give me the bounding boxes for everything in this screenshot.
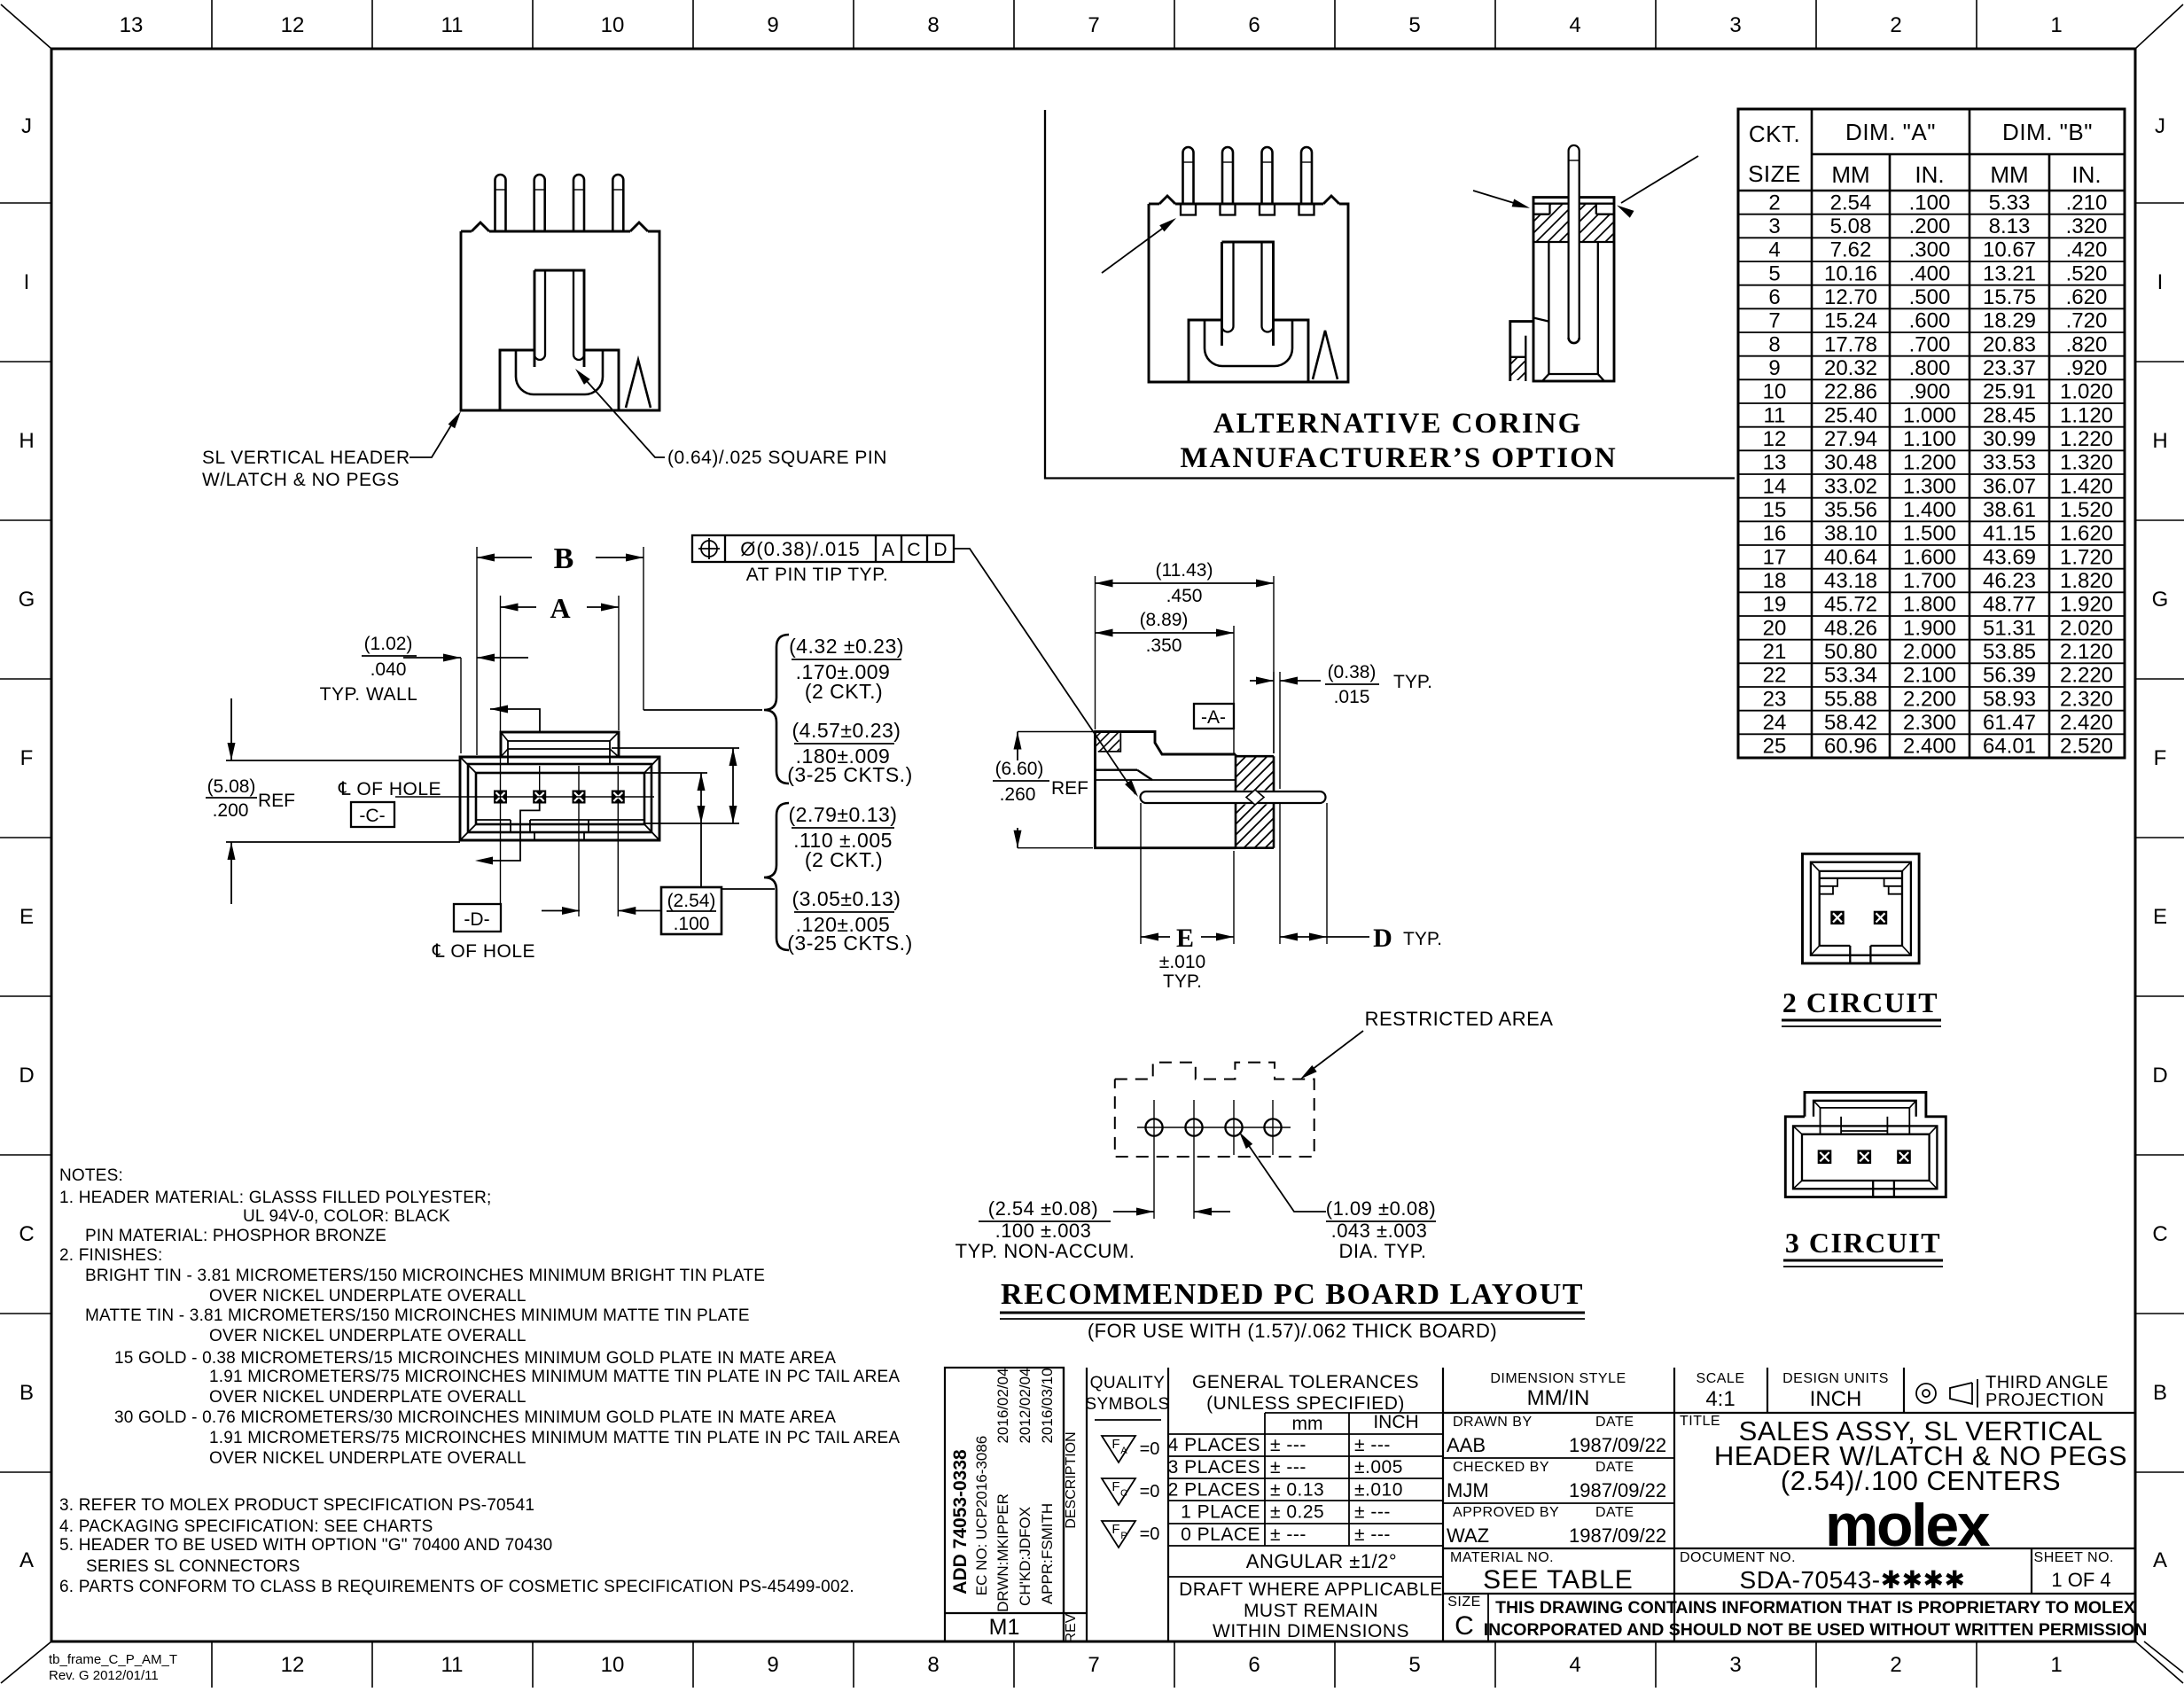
svg-text:-C-: -C-: [359, 806, 385, 826]
side view pin: [1141, 791, 1326, 803]
svg-text:2.300: 2.300: [1903, 711, 1956, 735]
svg-text:5. HEADER TO BE USED WITH OPTI: 5. HEADER TO BE USED WITH OPTION "G" 704…: [59, 1536, 552, 1555]
svg-text:DESIGN UNITS: DESIGN UNITS: [1782, 1371, 1889, 1386]
svg-text:.620: .620: [2066, 285, 2108, 309]
svg-text:SERIES SL CONNECTORS: SERIES SL CONNECTORS: [86, 1557, 300, 1576]
top view bottom shelf: [476, 819, 511, 821]
svg-text:SIZE: SIZE: [1748, 160, 1801, 187]
third angle projection: [1916, 1384, 1936, 1403]
svg-text:=0: =0: [1140, 1524, 1160, 1544]
svg-text:60.96: 60.96: [1824, 735, 1877, 759]
svg-text:UL 94V-0, COLOR: BLACK: UL 94V-0, COLOR: BLACK: [243, 1207, 450, 1226]
svg-text:APPROVED BY: APPROVED BY: [1453, 1505, 1559, 1520]
svg-text:ADD 74053-0338: ADD 74053-0338: [950, 1449, 971, 1595]
svg-text:(2.54 ±0.08): (2.54 ±0.08): [988, 1197, 1098, 1220]
svg-text:(2 CKT.): (2 CKT.): [805, 848, 883, 871]
svg-text:IN.: IN.: [1915, 161, 1944, 188]
svg-text:2.320: 2.320: [2060, 687, 2113, 711]
svg-text:9: 9: [767, 13, 778, 37]
coring front view body: [1149, 203, 1159, 206]
svg-text:10: 10: [601, 13, 625, 37]
svg-text:2.200: 2.200: [1903, 687, 1956, 711]
svg-text:6. PARTS CONFORM TO CLASS B RE: 6. PARTS CONFORM TO CLASS B REQUIREMENTS…: [59, 1578, 854, 1596]
coring latch slot: [1222, 242, 1274, 346]
leader 3-25ckts brace: [643, 709, 762, 711]
svg-text:.920: .920: [2066, 356, 2108, 380]
svg-text:C: C: [2152, 1222, 2167, 1246]
svg-text:38.61: 38.61: [1983, 498, 2036, 522]
coring hatch upper block: [1548, 204, 1550, 214]
side view inner lines: [1096, 779, 1236, 781]
pcb holes: [1145, 1119, 1162, 1135]
svg-text:(0.38): (0.38): [1328, 662, 1377, 682]
svg-text:45.72: 45.72: [1824, 593, 1877, 617]
svg-text:30.99: 30.99: [1983, 427, 2036, 451]
svg-text:SEE TABLE: SEE TABLE: [1483, 1565, 1634, 1595]
svg-text:(UNLESS SPECIFIED): (UNLESS SPECIFIED): [1206, 1393, 1405, 1414]
dimension wall 1.02: [460, 658, 462, 753]
svg-text:± ---: ± ---: [1270, 1435, 1306, 1455]
svg-text:DIM. "A": DIM. "A": [1845, 119, 1936, 145]
svg-text:INCH: INCH: [1373, 1412, 1418, 1432]
arrow left to coring side: [1473, 191, 1525, 207]
dimension 2.79 lines: [644, 772, 707, 774]
svg-text:PIN MATERIAL: PHOSPHOR BRONZE: PIN MATERIAL: PHOSPHOR BRONZE: [85, 1227, 386, 1245]
pin squares top view: [495, 791, 506, 803]
svg-text:11: 11: [1764, 403, 1786, 427]
quality symbols box: [1167, 1368, 1169, 1641]
svg-text:13.21: 13.21: [1983, 261, 2036, 285]
coring pins: [1183, 147, 1194, 204]
side view latch hatch: [1098, 733, 1121, 752]
svg-text:7.62: 7.62: [1830, 238, 1872, 262]
svg-text:-A-: -A-: [1201, 707, 1226, 728]
side view latch arm line: [1096, 769, 1138, 771]
pins inside slot: [544, 270, 546, 355]
svg-text:.300: .300: [1909, 238, 1951, 262]
header front view body: [461, 230, 472, 233]
svg-text:DIA. TYP.: DIA. TYP.: [1338, 1240, 1426, 1262]
svg-text:MM: MM: [1990, 161, 2028, 188]
svg-text:.450: .450: [1166, 586, 1203, 606]
svg-text:2.54: 2.54: [1830, 191, 1872, 214]
svg-text:OVER NICKEL UNDERPLATE OVERALL: OVER NICKEL UNDERPLATE OVERALL: [209, 1388, 526, 1407]
svg-text:25.40: 25.40: [1824, 403, 1877, 427]
svg-text:INCH: INCH: [1810, 1387, 1862, 1411]
leader to header body: [409, 417, 456, 457]
svg-text:F: F: [2154, 746, 2167, 770]
coring side cavity walls: [1548, 242, 1549, 374]
svg-text:TITLE: TITLE: [1680, 1414, 1720, 1429]
polarization triangle: [626, 360, 651, 408]
3 circuit latch notches: [1820, 1108, 1821, 1134]
svg-text:48.77: 48.77: [1983, 593, 2036, 617]
svg-text:(6.60): (6.60): [995, 759, 1044, 779]
position symbol: [701, 541, 717, 557]
svg-text:1 OF 4: 1 OF 4: [2051, 1569, 2110, 1591]
svg-text:TYP. NON-ACCUM.: TYP. NON-ACCUM.: [955, 1240, 1135, 1262]
svg-text:14: 14: [1763, 474, 1787, 498]
svg-text:0 PLACE: 0 PLACE: [1181, 1524, 1260, 1545]
2 circuit corner bevels: [1811, 862, 1820, 871]
top view bottom notches: [534, 832, 535, 840]
2 circuit inner walls: [1819, 871, 1821, 946]
svg-text:SYMBOLS: SYMBOLS: [1085, 1395, 1169, 1414]
corner diagonal bottom-right: [2135, 1641, 2183, 1683]
general tolerances box: [1442, 1368, 1444, 1641]
svg-text:1.020: 1.020: [2060, 380, 2113, 404]
svg-text:C: C: [1120, 1488, 1127, 1499]
svg-text:WAZ: WAZ: [1447, 1524, 1489, 1547]
svg-text:33.02: 33.02: [1824, 474, 1877, 498]
svg-text:12: 12: [1763, 427, 1787, 451]
svg-text:2. FINISHES:: 2. FINISHES:: [59, 1246, 162, 1265]
header pins top: [495, 175, 506, 231]
svg-text:4 PLACES: 4 PLACES: [1168, 1435, 1260, 1455]
svg-text:15: 15: [1763, 498, 1787, 522]
svg-text:THIS DRAWING CONTAINS INFORMAT: THIS DRAWING CONTAINS INFORMATION THAT I…: [1495, 1598, 2135, 1618]
svg-text:DATE: DATE: [1595, 1505, 1634, 1520]
svg-text:.260: .260: [1000, 784, 1036, 805]
svg-text:.720: .720: [2066, 309, 2108, 333]
dimension 8.89/.350: [1233, 626, 1235, 753]
svg-text:±.010: ±.010: [1354, 1479, 1403, 1500]
svg-text:(11.43): (11.43): [1156, 560, 1213, 581]
svg-text:15.24: 15.24: [1824, 309, 1877, 333]
coring side view body: [1533, 198, 1614, 381]
svg-text:4:1: 4:1: [1705, 1387, 1735, 1411]
svg-text:2016/03/10: 2016/03/10: [1039, 1368, 1056, 1443]
svg-text:.820: .820: [2066, 332, 2108, 356]
svg-text:9: 9: [767, 1653, 778, 1677]
svg-text:3. REFER TO MOLEX PRODUCT SPEC: 3. REFER TO MOLEX PRODUCT SPECIFICATION …: [59, 1496, 534, 1515]
svg-text:22: 22: [1763, 664, 1787, 688]
svg-text:5.08: 5.08: [1830, 214, 1872, 238]
svg-text:46.23: 46.23: [1983, 569, 2036, 593]
svg-text:43.69: 43.69: [1983, 545, 2036, 569]
svg-text:17.78: 17.78: [1824, 332, 1877, 356]
coring side bottom bevels: [1548, 373, 1597, 375]
svg-text:.043 ±.003: .043 ±.003: [1331, 1220, 1428, 1242]
dimension 4.57 lines: [612, 747, 739, 749]
svg-text:11: 11: [441, 13, 464, 37]
coring notches at pin bases: [1181, 204, 1196, 215]
svg-text:.350: .350: [1146, 635, 1182, 656]
svg-text:27.94: 27.94: [1824, 427, 1877, 451]
dimension A: [618, 596, 620, 730]
svg-text:2.000: 2.000: [1903, 640, 1956, 664]
svg-text:.200: .200: [213, 800, 249, 821]
svg-text:CHECKED BY: CHECKED BY: [1453, 1460, 1549, 1475]
alternative coring boundary: [1045, 110, 1735, 479]
svg-text:3 PLACES: 3 PLACES: [1168, 1457, 1260, 1478]
dimension 2.54 pcb: [1113, 1211, 1154, 1212]
svg-text:BRIGHT TIN - 3.81 MICROMETERS/: BRIGHT TIN - 3.81 MICROMETERS/150 MICROI…: [85, 1267, 765, 1285]
svg-text:± ---: ± ---: [1270, 1524, 1306, 1545]
svg-text:SHEET NO.: SHEET NO.: [2034, 1550, 2114, 1565]
svg-text:1.300: 1.300: [1903, 474, 1956, 498]
svg-text:CKT.: CKT.: [1749, 121, 1800, 147]
svg-text:REV: REV: [1064, 1613, 1079, 1642]
svg-text:OVER NICKEL UNDERPLATE OVERALL: OVER NICKEL UNDERPLATE OVERALL: [209, 1327, 526, 1345]
svg-text:DIM. "B": DIM. "B": [2002, 119, 2093, 145]
dimension 1.09 dia: [1242, 1135, 1326, 1212]
svg-text:DRWN:MKIPPER: DRWN:MKIPPER: [994, 1493, 1011, 1612]
svg-text:INCORPORATED AND SHOULD NOT BE: INCORPORATED AND SHOULD NOT BE USED WITH…: [1484, 1620, 2148, 1640]
svg-text:10.16: 10.16: [1824, 261, 1877, 285]
svg-text:TYP. WALL: TYP. WALL: [320, 684, 418, 705]
svg-text:mm: mm: [1292, 1414, 1323, 1434]
svg-text:J: J: [2155, 114, 2165, 138]
leader from control frame to side view pin: [954, 549, 1135, 794]
svg-text:C: C: [1455, 1611, 1474, 1641]
svg-text:58.42: 58.42: [1824, 711, 1877, 735]
document no cell: [2031, 1548, 2032, 1594]
latch protrusion top view: [501, 732, 619, 757]
svg-text:15.75: 15.75: [1983, 285, 2036, 309]
svg-text:58.93: 58.93: [1983, 687, 2036, 711]
svg-text:2.520: 2.520: [2060, 735, 2113, 759]
2 circuit view: [1803, 854, 1920, 963]
svg-text:1.100: 1.100: [1903, 427, 1956, 451]
svg-text:=0: =0: [1140, 1439, 1160, 1459]
svg-text:± ---: ± ---: [1354, 1524, 1391, 1545]
svg-text:18.29: 18.29: [1983, 309, 2036, 333]
svg-text:1.920: 1.920: [2060, 593, 2113, 617]
svg-text:TYP.: TYP.: [1403, 929, 1442, 949]
svg-text:.800: .800: [1909, 356, 1951, 380]
centerline pin1 extended: [500, 596, 502, 904]
hole centerlines: [1137, 1127, 1291, 1128]
svg-text:DIMENSION STYLE: DIMENSION STYLE: [1490, 1371, 1626, 1386]
svg-text:61.47: 61.47: [1983, 711, 2036, 735]
svg-text:AT PIN TIP TYP.: AT PIN TIP TYP.: [746, 565, 888, 585]
upper brace: [764, 635, 789, 784]
svg-text:25: 25: [1763, 735, 1787, 759]
top view bevel rect: [468, 764, 651, 832]
svg-text:13: 13: [120, 13, 144, 37]
dimension D typ: [1279, 803, 1281, 944]
svg-text:M1: M1: [989, 1615, 1020, 1640]
svg-text:25.91: 25.91: [1983, 380, 2036, 404]
leader to lower brace: [700, 823, 702, 887]
datum A flag: [1194, 704, 1234, 729]
svg-text:tb_frame_C_P_AM_T: tb_frame_C_P_AM_T: [49, 1652, 177, 1667]
svg-text:(2.54): (2.54): [667, 891, 716, 911]
svg-text:10: 10: [1763, 380, 1787, 404]
svg-text:MATTE TIN - 3.81 MICROMETERS/1: MATTE TIN - 3.81 MICROMETERS/150 MICROIN…: [85, 1306, 750, 1325]
svg-text:1.220: 1.220: [2060, 427, 2113, 451]
svg-text:1 PLACE: 1 PLACE: [1181, 1502, 1260, 1523]
svg-text:SCALE: SCALE: [1696, 1371, 1745, 1386]
svg-text:2: 2: [1768, 191, 1780, 214]
svg-text:1: 1: [2050, 13, 2062, 37]
svg-text:2 CIRCUIT: 2 CIRCUIT: [1782, 986, 1938, 1018]
2 circuit bottom notch: [1849, 946, 1851, 963]
svg-text:1: 1: [2050, 1653, 2062, 1677]
svg-text:W/LATCH & NO PEGS: W/LATCH & NO PEGS: [202, 470, 400, 490]
svg-text:C: C: [19, 1222, 34, 1246]
svg-text:22.86: 22.86: [1824, 380, 1877, 404]
side view body outline: [1096, 732, 1236, 848]
scale cell: [1767, 1368, 1768, 1413]
svg-text:2.100: 2.100: [1903, 664, 1956, 688]
svg-text:SIZE: SIZE: [1447, 1595, 1481, 1610]
svg-text:.100 ±.003: .100 ±.003: [995, 1220, 1092, 1242]
svg-text:I: I: [24, 270, 30, 294]
svg-text:IN.: IN.: [2071, 161, 2101, 188]
svg-text:A: A: [882, 540, 894, 560]
svg-text:(1.02): (1.02): [364, 634, 413, 654]
svg-text:D: D: [933, 540, 947, 560]
svg-text:A: A: [1120, 1446, 1127, 1456]
dimension E: [1140, 803, 1142, 944]
feature control frame: [692, 535, 954, 562]
svg-text:± 0.13: ± 0.13: [1270, 1479, 1324, 1500]
svg-text:2: 2: [1890, 1653, 1901, 1677]
svg-text:PROJECTION: PROJECTION: [1985, 1391, 2104, 1410]
corner diagonal top-left: [1, 4, 51, 49]
pcb cross-section hatched: [1236, 755, 1274, 758]
svg-text:30 GOLD - 0.76 MICROMETERS/30: 30 GOLD - 0.76 MICROMETERS/30 MICROINCHE…: [114, 1408, 836, 1427]
tolerance table lines: [1265, 1412, 1442, 1414]
3 circuit pins: [1819, 1150, 1831, 1163]
svg-text:2016/02/04: 2016/02/04: [994, 1368, 1011, 1443]
svg-text:F: F: [1111, 1437, 1119, 1452]
svg-text:6: 6: [1248, 1653, 1260, 1677]
svg-text:35.56: 35.56: [1824, 498, 1877, 522]
3 circuit inner: [1793, 1126, 1937, 1189]
U cavity: [500, 350, 534, 410]
svg-text:13: 13: [1763, 451, 1787, 475]
svg-text:36.07: 36.07: [1983, 474, 2036, 498]
svg-text:.100: .100: [1909, 191, 1951, 214]
svg-text:MATERIAL NO.: MATERIAL NO.: [1450, 1550, 1554, 1565]
svg-text:.040: .040: [370, 659, 407, 680]
2 circuit pins: [1831, 912, 1843, 924]
svg-text:43.18: 43.18: [1824, 569, 1877, 593]
svg-text:3: 3: [1729, 1653, 1741, 1677]
svg-text:7: 7: [1768, 309, 1780, 333]
svg-text:3: 3: [1768, 214, 1780, 238]
svg-text:(5.08): (5.08): [207, 776, 256, 797]
svg-text:1.500: 1.500: [1903, 522, 1956, 546]
coring side top strip: [1533, 203, 1614, 205]
2 circuit latch recess: [1820, 877, 1902, 879]
svg-text:A: A: [19, 1548, 34, 1572]
svg-text:2.420: 2.420: [2060, 711, 2113, 735]
svg-text:1.600: 1.600: [1903, 545, 1956, 569]
svg-text:2.400: 2.400: [1903, 735, 1956, 759]
svg-text:SL VERTICAL HEADER: SL VERTICAL HEADER: [202, 448, 410, 468]
datum D label: [454, 904, 501, 932]
svg-text:℄ OF HOLE: ℄ OF HOLE: [432, 941, 535, 962]
svg-text:.500: .500: [1909, 285, 1951, 309]
svg-text:(0.64)/.025 SQUARE PIN: (0.64)/.025 SQUARE PIN: [667, 448, 887, 468]
latch slot: [534, 270, 584, 367]
svg-text:8: 8: [927, 1653, 939, 1677]
svg-text:I: I: [2157, 270, 2164, 294]
svg-text:.600: .600: [1909, 309, 1951, 333]
svg-text:1.900: 1.900: [1903, 616, 1956, 640]
svg-text:1.620: 1.620: [2060, 522, 2113, 546]
svg-text:1.000: 1.000: [1903, 403, 1956, 427]
svg-text:1.91 MICROMETERS/75 MICROINCHE: 1.91 MICROMETERS/75 MICROINCHES MINIMUM …: [209, 1368, 900, 1386]
quality symbol FA: [1102, 1436, 1135, 1462]
svg-text:1. HEADER MATERIAL: GLASSS FIL: 1. HEADER MATERIAL: GLASSS FILLED POLYES…: [59, 1189, 491, 1207]
svg-text:28.45: 28.45: [1983, 403, 2036, 427]
svg-text:1.320: 1.320: [2060, 451, 2113, 475]
svg-text:6: 6: [1248, 13, 1260, 37]
svg-text:DESCRIPTION: DESCRIPTION: [1064, 1431, 1079, 1528]
svg-text:Rev. G 2012/01/11: Rev. G 2012/01/11: [49, 1668, 159, 1683]
svg-text:6: 6: [1768, 285, 1780, 309]
svg-text:(4.32 ±0.23): (4.32 ±0.23): [789, 635, 904, 658]
svg-text:20.83: 20.83: [1983, 332, 2036, 356]
svg-text:5: 5: [1408, 13, 1420, 37]
svg-text:53.85: 53.85: [1983, 640, 2036, 664]
svg-text:E: E: [2153, 905, 2167, 929]
svg-text:7: 7: [1088, 13, 1099, 37]
svg-text:64.01: 64.01: [1983, 735, 2036, 759]
svg-text:12: 12: [281, 13, 305, 37]
svg-text:RECOMMENDED PC BOARD LAYOUT: RECOMMENDED PC BOARD LAYOUT: [1001, 1278, 1584, 1311]
svg-text:24: 24: [1763, 711, 1787, 735]
svg-text:(1.09 ±0.08): (1.09 ±0.08): [1326, 1197, 1436, 1220]
svg-text:P: P: [1120, 1531, 1127, 1541]
svg-text:4: 4: [1569, 13, 1580, 37]
center column cells: [1673, 1368, 1675, 1641]
svg-text:WITHIN DIMENSIONS: WITHIN DIMENSIONS: [1213, 1621, 1409, 1641]
svg-text:8: 8: [927, 13, 939, 37]
pin centerline horizontal: [395, 796, 654, 798]
svg-text:F: F: [1111, 1479, 1119, 1494]
svg-text:MJM: MJM: [1447, 1479, 1489, 1501]
svg-text:12.70: 12.70: [1824, 285, 1877, 309]
svg-text:1.520: 1.520: [2060, 498, 2113, 522]
svg-text:MM: MM: [1831, 161, 1869, 188]
3 circuit corner bevels: [1793, 1126, 1802, 1134]
svg-text:(8.89): (8.89): [1140, 610, 1189, 630]
svg-text:51.31: 51.31: [1983, 616, 2036, 640]
svg-text:1.400: 1.400: [1903, 498, 1956, 522]
svg-text:TYP.: TYP.: [1393, 672, 1432, 692]
svg-text:OVER NICKEL UNDERPLATE OVERALL: OVER NICKEL UNDERPLATE OVERALL: [209, 1287, 526, 1306]
svg-text:1.200: 1.200: [1903, 451, 1956, 475]
svg-text:.700: .700: [1909, 332, 1951, 356]
top view body outer: [460, 757, 659, 840]
svg-text:±.010: ±.010: [1159, 952, 1205, 972]
title block outer lines: [945, 1368, 1064, 1641]
svg-text:(3-25 CKTS.): (3-25 CKTS.): [787, 763, 912, 786]
svg-text:MANUFACTURER’S OPTION: MANUFACTURER’S OPTION: [1180, 442, 1617, 474]
coring polarization triangle: [1313, 331, 1338, 379]
leader 2ckt lower from pin2: [479, 802, 540, 861]
svg-text:9: 9: [1768, 356, 1780, 380]
svg-text:50.80: 50.80: [1824, 640, 1877, 664]
svg-text:38.10: 38.10: [1824, 522, 1877, 546]
svg-text:2.220: 2.220: [2060, 664, 2113, 688]
svg-text:A: A: [550, 592, 570, 624]
svg-text:E: E: [19, 905, 34, 929]
svg-text:1.800: 1.800: [1903, 593, 1956, 617]
svg-text:± ---: ± ---: [1270, 1457, 1306, 1478]
svg-text:7: 7: [1088, 1653, 1099, 1677]
svg-text:.100: .100: [674, 914, 710, 934]
top view inner rect: [476, 773, 644, 824]
svg-text:(3-25 CKTS.): (3-25 CKTS.): [787, 932, 912, 955]
svg-text:REF: REF: [258, 791, 295, 811]
